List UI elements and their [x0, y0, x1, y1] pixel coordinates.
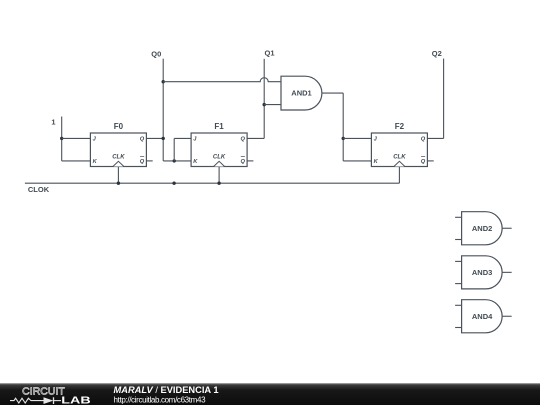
clock edge triangle F2	[394, 161, 405, 166]
svg-text:Q: Q	[240, 137, 245, 143]
wire AND3 input A stub	[455, 260, 462, 262]
wire F1 CLK drop	[218, 167, 220, 184]
junction Q0 branch	[173, 159, 176, 162]
flip-flop F1	[191, 122, 247, 167]
wire F2 CLK drop	[398, 167, 400, 184]
junction 1-node / F0.J	[60, 137, 63, 140]
body outline F0	[90, 133, 146, 167]
svg-text:CLOK: CLOK	[28, 185, 50, 194]
svg-text:1: 1	[51, 118, 55, 127]
body outline AND4	[462, 300, 503, 333]
wire AND2 input A stub	[455, 216, 462, 218]
body outline AND3	[462, 256, 503, 289]
svg-text:F0: F0	[114, 122, 124, 131]
junction AND1 out / F2.J	[342, 137, 345, 140]
svg-text:Q0: Q0	[151, 50, 161, 59]
svg-text:CLK: CLK	[112, 155, 125, 161]
wire to F0 J	[62, 137, 91, 139]
body outline F2	[371, 133, 427, 167]
wire F0.Q output	[146, 137, 163, 139]
wire AND4 input A stub	[455, 304, 462, 306]
AND gate AND3	[455, 256, 512, 289]
wire F0 CLK drop	[117, 167, 119, 184]
wire 1-node vertical	[61, 117, 63, 161]
body outline F1	[191, 133, 247, 167]
wire to F1 J	[174, 137, 191, 139]
wire branch up to F1 J row	[173, 138, 175, 161]
wire Q1 vertical	[263, 59, 265, 139]
svg-text:AND4: AND4	[472, 312, 493, 321]
svg-text:CLK: CLK	[213, 155, 226, 161]
junction Q0 / AND1 input	[162, 80, 165, 83]
svg-text:Q1: Q1	[265, 49, 275, 58]
logo diode symbol	[44, 397, 54, 404]
svg-text:Q: Q	[140, 137, 145, 143]
svg-text:Q: Q	[421, 159, 426, 165]
junction CLOK / F1 CLK	[217, 182, 220, 185]
wire F0.Qbar stub	[146, 160, 152, 162]
svg-text:AND1: AND1	[291, 89, 311, 98]
flip-flop F0	[90, 122, 146, 167]
wire AND2 output stub	[502, 227, 512, 229]
wire AND4 output stub	[502, 315, 512, 317]
junction Q0 / F0.Q	[162, 137, 165, 140]
clock edge triangle F1	[214, 161, 225, 166]
svg-text:CIRCUIT: CIRCUIT	[22, 386, 65, 397]
svg-text:MARALV / EVIDENCIA 1: MARALV / EVIDENCIA 1	[114, 385, 219, 395]
svg-text:AND2: AND2	[472, 224, 492, 233]
svg-text:F2: F2	[395, 122, 405, 131]
wire Q0 to AND1 top input with hop	[163, 78, 281, 82]
svg-text:Q2: Q2	[432, 49, 442, 58]
svg-text:AND3: AND3	[472, 268, 492, 277]
wire to F2 J	[343, 137, 371, 139]
wire Q1 to AND1 bottom input	[264, 104, 281, 106]
flip-flop F2	[371, 122, 427, 167]
wire AND3 input B stub	[455, 283, 462, 285]
AND gate AND2	[455, 212, 512, 245]
wire F1.Q output	[247, 137, 264, 139]
AND gate AND1	[281, 76, 322, 110]
wire CLOK bus	[25, 182, 400, 184]
wire Q0 vertical	[162, 59, 164, 161]
svg-text:F1: F1	[214, 122, 224, 131]
AND gate AND4	[455, 300, 512, 333]
wire F2.Q output	[427, 137, 443, 139]
wire AND1 output down	[342, 93, 344, 161]
wire to F0 K	[62, 160, 91, 162]
wire AND1 output	[322, 92, 343, 94]
wire to F2 K	[343, 160, 371, 162]
junction CLOK stray node	[172, 182, 175, 185]
svg-text:http://circuitlab.com/c63tm43: http://circuitlab.com/c63tm43	[114, 395, 207, 404]
logo resistor symbol	[10, 398, 44, 403]
clock edge triangle F0	[113, 161, 124, 166]
svg-text:Q: Q	[140, 159, 145, 165]
svg-text:CLK: CLK	[393, 155, 406, 161]
svg-text:LAB: LAB	[61, 396, 90, 405]
wire Q2 vertical	[443, 59, 445, 139]
svg-text:Q: Q	[421, 137, 426, 143]
wire Q0 to F1 K	[163, 160, 191, 162]
svg-text:Q: Q	[240, 159, 245, 165]
wire F1.Qbar stub	[247, 160, 253, 162]
wire AND4 input B stub	[455, 327, 462, 329]
junction CLOK / F0 CLK	[117, 182, 120, 185]
body outline AND1	[281, 76, 322, 110]
wire F2.Qbar stub	[427, 160, 433, 162]
wire AND2 input B stub	[455, 239, 462, 241]
body outline AND2	[462, 212, 503, 245]
wire AND3 output stub	[502, 271, 512, 273]
junction Q1 / AND1 input	[263, 103, 266, 106]
